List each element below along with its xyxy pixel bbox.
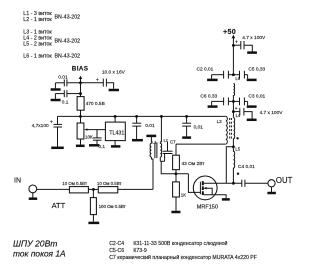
node L4/L5 junction (232, 145, 235, 148)
connector IN (29, 185, 37, 193)
svg-text:C7 керамический планарный конд: C7 керамический планарный конденсатор MU… (109, 254, 257, 261)
svg-text:ток покоя 1А: ток покоя 1А (13, 249, 66, 259)
transistor Q1 MRF150 (193, 176, 217, 200)
svg-text:C6 0.33: C6 0.33 (200, 94, 217, 100)
svg-text:C2-C4: C2-C4 (109, 241, 124, 247)
node rail cap2 (135, 115, 138, 118)
svg-text:L2 - 1 виток: L2 - 1 виток (23, 17, 52, 23)
svg-text:100 Ом 0.5Вт: 100 Ом 0.5Вт (99, 204, 126, 209)
svg-text:43 Ом 2Вт: 43 Ом 2Вт (182, 161, 206, 167)
svg-text:MRF150: MRF150 (197, 204, 218, 210)
svg-text:C7: C7 (170, 140, 176, 145)
capacitor 0,01 (rail right / T2) (186, 116, 188, 123)
svg-text:0.01: 0.01 (145, 123, 155, 129)
ground (C3) (247, 105, 257, 108)
wire TL431 top pin (114, 116, 116, 122)
ground (0,01 rail right) (182, 136, 191, 139)
svg-text:0.1: 0.1 (62, 99, 69, 105)
svg-text:4.7 x 100V: 4.7 x 100V (242, 35, 266, 41)
svg-text:10 Ом 0.5Вт: 10 Ом 0.5Вт (97, 181, 122, 186)
svg-text:L5 - 2 виток: L5 - 2 виток (23, 42, 52, 48)
ground (C6) (208, 105, 218, 108)
svg-text:BN-43-202: BN-43-202 (55, 54, 81, 60)
transformer T1 core (154, 142, 156, 158)
svg-text:BN-43-202: BN-43-202 (55, 14, 81, 20)
svg-text:BIAS: BIAS (72, 65, 89, 72)
wire gate jog (188, 174, 200, 193)
node C6/C3 (232, 100, 235, 103)
ground (OUT) (267, 192, 276, 195)
resistor 1K (175, 174, 177, 182)
node rail TL431 (114, 115, 117, 118)
wire att to T1 riser (118, 188, 153, 190)
ground (100 Om) (88, 222, 99, 225)
ground (Q1 source) (222, 198, 230, 201)
svg-text:10К: 10К (85, 134, 93, 139)
svg-text:ATT: ATT (52, 201, 66, 210)
wire bias top row (55, 82, 64, 84)
svg-text:L3: L3 (217, 119, 223, 124)
ground (4,7x100) (51, 147, 64, 150)
node att (92, 188, 95, 191)
wire resistor 470 to rail (80, 110, 82, 116)
connector OUT (268, 180, 275, 187)
ground (0.01 bias) (51, 88, 61, 91)
svg-text:TL431: TL431 (109, 130, 124, 136)
potentiometer 10K (80, 116, 82, 123)
svg-text:+: + (50, 119, 53, 125)
ground (C2) (207, 79, 218, 82)
wire 10.0x16V to ground (106, 83, 113, 89)
svg-text:ШПУ 20Вт: ШПУ 20Вт (13, 239, 57, 249)
ground (0.1 ref) (89, 144, 99, 147)
ground (1K) (171, 211, 180, 214)
junction dot stray (near L4 bottom) (236, 137, 238, 139)
resistor att 100 Om shunt (92, 189, 94, 197)
svg-text:10 Ом 0.5Вт: 10 Ом 0.5Вт (62, 181, 87, 186)
ground (C5) (247, 79, 257, 82)
wire node to resistor 470 (80, 83, 82, 97)
wire drain jog (226, 147, 233, 183)
ground (4.7x100V top) (247, 51, 257, 54)
transformer T2 core (dashed) (229, 118, 231, 140)
wire down to gate node (161, 161, 188, 174)
capacitor 0.1 (bias) (63, 90, 65, 97)
capacitor 0.1 (TL431 ref) (93, 137, 102, 139)
svg-text:L6: L6 (235, 76, 240, 81)
svg-text:C4 0.01: C4 0.01 (238, 164, 255, 170)
wire rail feed down to T1 (160, 116, 161, 141)
Q1 source wire (204, 195, 227, 199)
wire to ground (0.1 bias) (54, 94, 56, 99)
wire L2/C7 bottom tie (160, 160, 164, 162)
svg-text:C5-C6: C5-C6 (109, 248, 124, 254)
ground (10K pot) (76, 145, 85, 148)
node supply top (232, 44, 235, 47)
node C2/C5 (232, 73, 235, 76)
svg-text:4,7x100: 4,7x100 (32, 123, 49, 129)
svg-text:1К: 1К (181, 192, 186, 197)
svg-text:C5 0,33: C5 0,33 (248, 66, 265, 72)
svg-text:OUT: OUT (276, 176, 293, 185)
wire C7 top to rail of T1 (already) / wire 43ohm top (175, 144, 177, 155)
ground (10.0x16V) (109, 89, 119, 92)
node electrolytic 2 (232, 110, 235, 113)
Q1 gate electrode (199, 182, 201, 194)
svg-text:+: + (96, 78, 99, 84)
ground (above L1) (146, 135, 156, 138)
ground (0.01 rail mid) (132, 139, 143, 142)
svg-text:10.0 x 16V: 10.0 x 16V (102, 69, 126, 75)
svg-text:+50: +50 (223, 27, 236, 36)
svg-text:L5: L5 (235, 147, 240, 152)
svg-text:0,01: 0,01 (194, 125, 204, 131)
capacitor 0.01 (rail mid) (136, 116, 138, 123)
wire att mid (88, 188, 98, 190)
svg-text:0.1: 0.1 (98, 144, 105, 150)
svg-text:L6 - 1 виток: L6 - 1 виток (23, 54, 52, 60)
node bias second row (79, 92, 82, 95)
junction dot stray (near C4) (237, 173, 239, 175)
wire wiper to cap 0.1 (96, 130, 98, 138)
svg-text:IN: IN (14, 177, 21, 184)
node gate network (174, 172, 177, 175)
ground (0.1 bias) (51, 99, 61, 102)
BIAS arrow (79, 76, 83, 79)
svg-text:C2 0.01: C2 0.01 (197, 66, 214, 72)
resistor 470 0.5W (77, 97, 84, 111)
resistor 43 Om 2W (173, 155, 180, 170)
svg-text:470 0.5В: 470 0.5В (86, 101, 105, 107)
+50 arrow (232, 35, 236, 39)
Q1 substrate arrow (203, 187, 206, 190)
node rail pot (79, 115, 82, 118)
svg-text:BN-43-202: BN-43-202 (55, 38, 81, 44)
wire ground to L1 (150, 137, 152, 143)
capacitor 0.01 (bias) (63, 79, 65, 86)
svg-text:C3 0,01: C3 0,01 (248, 94, 265, 100)
svg-text:0.01: 0.01 (58, 74, 68, 80)
op-amp U1 TL431 box (105, 122, 125, 141)
node drain/C4 (232, 182, 235, 185)
svg-text:К73-9: К73-9 (133, 248, 147, 254)
wire L6 bottom to node4 (232, 101, 234, 117)
ground (TL431) (111, 145, 120, 148)
svg-text:4.7 x 100V: 4.7 x 100V (260, 110, 284, 116)
svg-text:К31-11-33 500В конденсатор слю: К31-11-33 500В конденсатор слюдяной (133, 240, 227, 247)
node rail feed (160, 115, 163, 118)
node rail cap3 (185, 115, 188, 118)
bias rail wire (58, 115, 226, 117)
wire TL431 bottom pin (114, 141, 116, 146)
wire bias second row (55, 93, 64, 95)
potentiometer wiper arrow (84, 128, 87, 130)
Q1 channel segments (202, 181, 204, 195)
ground (IN) (29, 197, 38, 200)
node BIAS top (79, 81, 82, 84)
svg-text:L4: L4 (236, 113, 241, 118)
wire T2 bottom edge to 43ohm (176, 143, 226, 145)
Q1 drain wire (204, 182, 242, 184)
wire to ground (0.01 bias) (54, 83, 56, 89)
svg-text:+: + (235, 39, 238, 45)
ground (4.7x100V lower) (247, 119, 257, 122)
wire L1 to attenuator riser (151, 157, 153, 189)
wire IN to R att1 (37, 188, 70, 190)
